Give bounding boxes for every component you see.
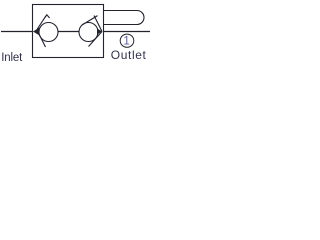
check valve CV2 upper seat line — [94, 16, 102, 32]
check valve CV1 flow arrow head — [45, 15, 50, 18]
check valve CV1 lower seat line — [38, 32, 46, 47]
check valve CV1 ball — [39, 23, 58, 42]
outlet wire — [104, 31, 151, 33]
check valve CV2 seat triangle — [97, 28, 102, 34]
check valve CV2 ball — [79, 23, 98, 42]
svg-text:1: 1 — [123, 36, 129, 48]
one-touch fitting (pill) top line — [104, 10, 137, 12]
check valve CV1 flow arrow shaft — [36, 16, 46, 31]
one-touch fitting (pill) bottom line — [104, 24, 137, 26]
svg-text:Outlet: Outlet — [111, 48, 147, 62]
port number circle — [120, 34, 134, 47]
inlet wire — [1, 31, 33, 33]
check valve CV2 lower seat line — [89, 32, 103, 47]
background — [0, 0, 151, 64]
svg-text:Inlet: Inlet — [1, 52, 23, 64]
check valve CV2 flow arrow shaft — [82, 16, 98, 25]
wire between check valves — [58, 31, 80, 33]
check valve CV1 seat triangle — [33, 28, 40, 36]
valve body box — [33, 5, 104, 58]
one-touch fitting (pill) right cap — [137, 11, 144, 25]
